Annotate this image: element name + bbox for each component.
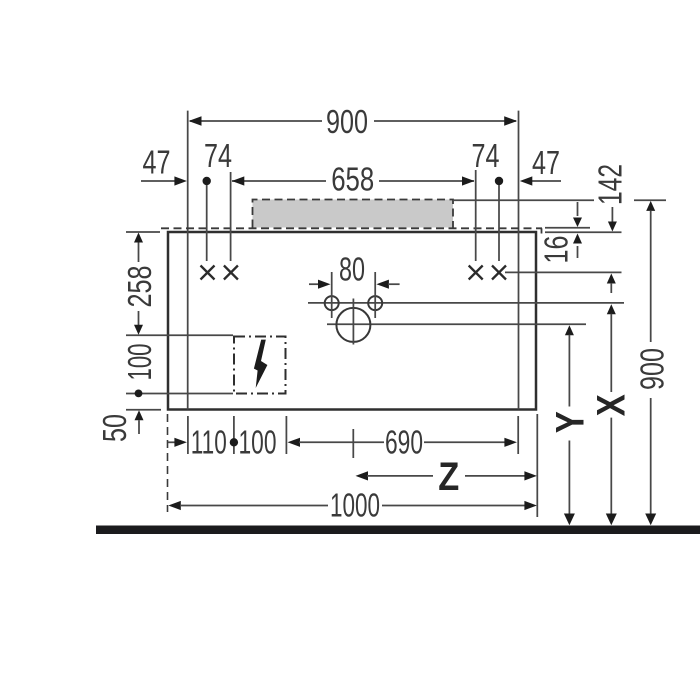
dim 100 dot [135,390,143,398]
dim 658 left arrow [232,176,245,185]
svg-text:100: 100 [239,424,277,461]
dim X stem lower [610,418,612,514]
faucet hole right [368,296,382,310]
dim 74 left tick down [206,185,208,261]
svg-text:690: 690 [385,423,423,460]
cabinet inner left panel line [187,111,189,410]
dim 74 right tick down [498,185,500,261]
svg-text:Y: Y [548,411,592,433]
washbasin dashed outline [253,200,454,228]
svg-text:142: 142 [592,164,629,205]
dim 900 right stem lower [650,398,652,514]
cabinet top level extension right [545,231,622,233]
mounting mark x3 [469,266,483,280]
bottom tick 100-690 [285,416,287,454]
dim 658 right arrow [462,176,475,185]
dim 16 upper arrow [577,202,579,216]
dim 74 right dot [495,177,503,185]
dim Y floor arrow [564,514,575,526]
dim 110 leader [168,441,175,443]
extension line cabinet top left [126,231,160,233]
svg-text:47: 47 [532,144,560,181]
faucet hole tick left [331,272,333,318]
lightning bolt [254,340,268,388]
basin bottom level extension right [545,227,590,229]
faucet hole left [325,296,339,310]
dim Z line [367,475,433,477]
dim 1000 left arrow [168,501,181,510]
svg-text:50: 50 [96,414,133,442]
dim 50 arrow [135,410,144,420]
dim 690 line [299,441,384,443]
bottom tick 690 right [517,416,519,454]
dashed line end hook [541,228,543,233]
svg-text:1000: 1000 [330,487,380,524]
extension solid below cabinet right [536,414,538,517]
washbasin footprint gray [253,200,454,228]
dim 74 left dot [203,177,211,185]
dim Z left arrow [356,471,369,480]
dim 142 arrow [611,207,613,222]
faucet holes level line [308,302,624,304]
dim 690 right arrow [504,438,517,447]
dim 80 right arrow [376,280,389,289]
dim 900 top left arrow [189,116,202,126]
extension line siphon box top [126,334,233,336]
dim Y top arrow [565,325,574,335]
dim 658 left tick [230,172,232,261]
drain center tick [352,429,354,458]
mounting mark x4 [492,266,506,280]
faucet hole tick right [374,272,376,318]
svg-text:258: 258 [121,266,158,308]
dim 900 top right arrow [504,116,517,126]
svg-text:74: 74 [204,137,232,174]
mounting mark x1 [201,266,215,280]
dim 1000 right arrow [524,501,537,510]
basin top level line right segment [634,199,666,201]
svg-text:900: 900 [326,103,368,140]
bottom tick 110 left [187,416,189,454]
bottom tick 110-100 [233,416,235,454]
dim 47 left arrow [174,176,187,185]
dashed line basin bottom [161,227,542,229]
dim 658 right tick [475,170,477,261]
mounting mark x2 [224,266,238,280]
dim 80 left arrow [318,280,331,289]
svg-text:900: 900 [634,348,671,390]
dim 47 left leader [141,180,175,182]
dim X main arrow top [607,304,616,314]
svg-text:74: 74 [472,137,500,174]
dim 47 right arrow [520,176,533,185]
cabinet inner right panel line [518,111,520,410]
dim 900 right floor arrow [645,514,656,526]
dim Z right arrow [524,471,537,480]
dim 80 left leader [309,283,319,285]
drain centerline vertical [352,299,354,345]
dim 110 arrow [174,438,187,447]
dim chain dot [230,438,238,446]
dim 1000 line [180,505,328,507]
svg-text:X: X [590,394,634,416]
extension dashed below cabinet left [167,414,169,512]
basin top level line [453,199,594,201]
svg-text:47: 47 [143,144,171,181]
dim 47 right leader [532,180,561,182]
dim 80 right leader [388,283,400,285]
mounting level line right [505,271,622,273]
floor line [96,526,700,535]
dim 900 right top arrow [646,201,655,211]
drain circle [336,308,370,342]
dim 258 upper arrow [134,233,143,243]
svg-text:100: 100 [121,344,158,381]
drain level line [327,323,586,325]
svg-text:658: 658 [331,161,374,198]
dim 258 lower arrow [138,311,140,325]
dim 658 line [232,180,326,182]
electrical box dash-dot [234,337,286,394]
svg-text:16: 16 [538,236,575,264]
dim X upper arrow piece [607,274,616,284]
dim 690 left arrow [288,438,301,447]
cabinet outline [168,232,536,410]
svg-text:80: 80 [339,251,365,288]
dim 16 lower arrow [577,246,579,258]
extension line socket level [126,393,233,395]
svg-text:Z: Z [438,455,459,499]
dim Y stem lower [568,441,570,515]
dim X floor arrow [606,514,617,526]
dim 900 top line [190,120,322,122]
svg-text:110: 110 [191,424,227,461]
extension line cabinet bottom left [126,409,161,411]
